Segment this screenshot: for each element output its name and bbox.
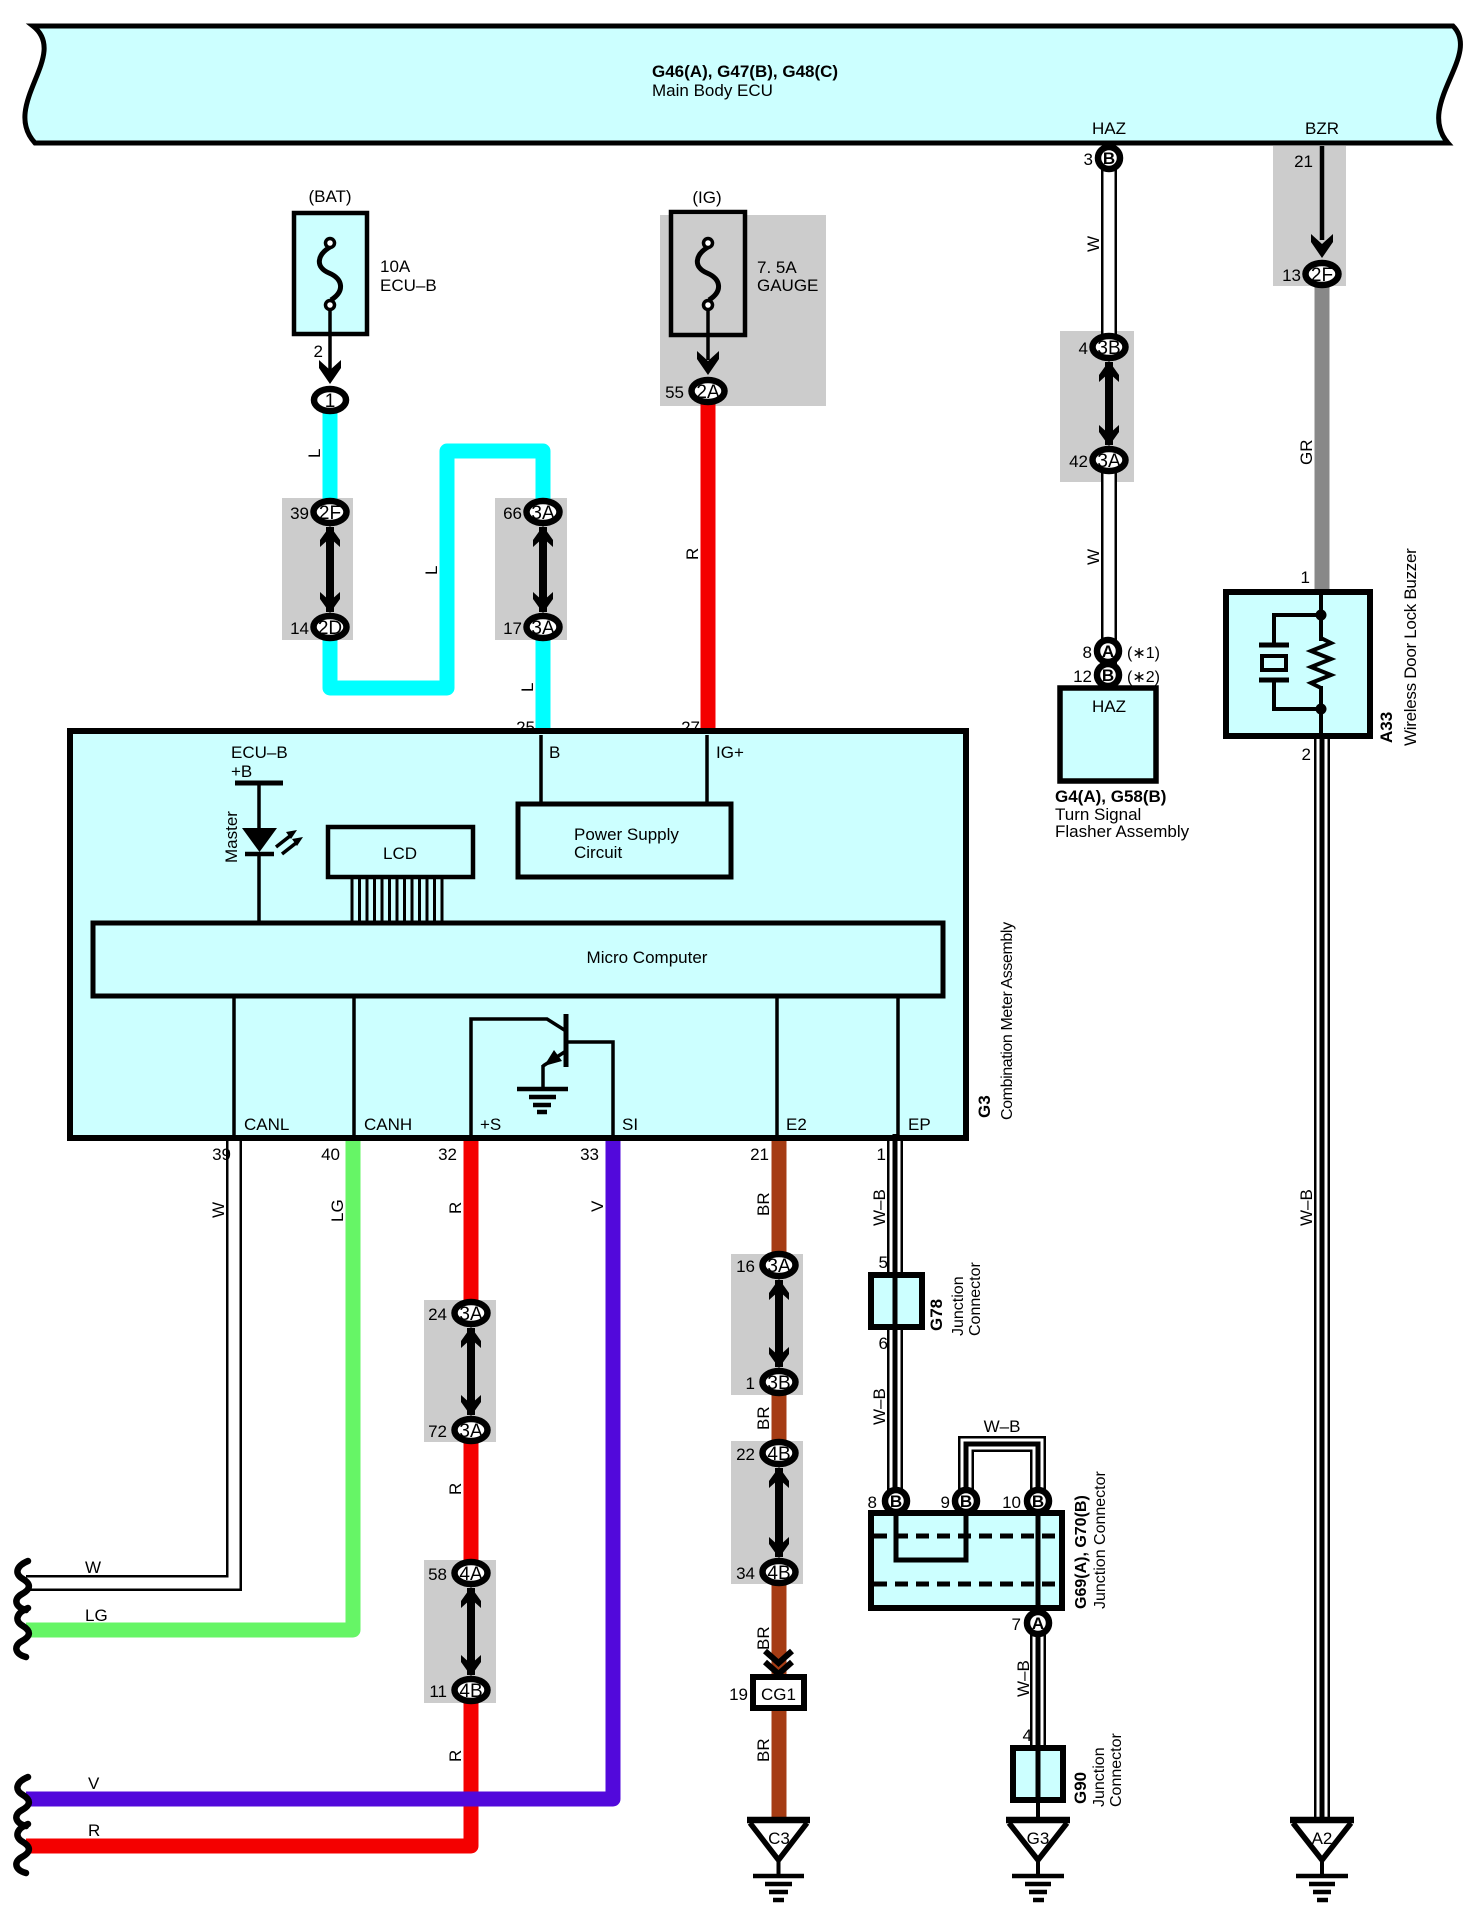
connector 58 4A <box>455 1562 488 1584</box>
wire W white from HAZ B to flasher <box>1101 165 1117 351</box>
resistor R buzzer <box>1311 638 1331 688</box>
svg-text:39: 39 <box>212 1145 231 1164</box>
svg-text:CG1: CG1 <box>761 1685 796 1704</box>
svg-text:16: 16 <box>736 1257 755 1276</box>
svg-text:34: 34 <box>736 1564 755 1583</box>
svg-text:EP: EP <box>908 1115 931 1134</box>
connector 14 2D <box>314 616 347 638</box>
svg-text:R: R <box>683 548 702 560</box>
connector CG1 <box>753 1677 804 1708</box>
wire BR brown from E2 to ground C3 <box>772 1134 787 1269</box>
svg-text:17: 17 <box>503 619 522 638</box>
svg-text:39: 39 <box>290 504 309 523</box>
svg-text:ECU–B: ECU–B <box>231 743 288 762</box>
svg-text:19: 19 <box>729 1685 748 1704</box>
Turn Signal Flasher Assembly box <box>1060 688 1156 781</box>
svg-text:Wireless Door Lock Buzzer: Wireless Door Lock Buzzer <box>1401 548 1420 746</box>
svg-text:A: A <box>1102 642 1114 661</box>
svg-text:W–B: W–B <box>870 1388 889 1425</box>
svg-text:L: L <box>518 683 537 692</box>
svg-text:Combination Meter Assembly: Combination Meter Assembly <box>999 922 1016 1120</box>
wire R red mid run <box>464 1426 479 1577</box>
power rail bar <box>235 781 283 786</box>
arrow pair 16-1 <box>775 1280 783 1367</box>
arrow pair 3B-3A <box>1105 362 1113 445</box>
backdrop connectors 4 3B/42 3A <box>1060 331 1134 482</box>
wire from G90 to ground G3 <box>1036 1798 1040 1820</box>
connector 3 B <box>1098 147 1120 169</box>
svg-text:BR: BR <box>754 1192 773 1216</box>
wire R red lower run <box>26 1686 471 1846</box>
svg-text:3B: 3B <box>1097 338 1120 359</box>
svg-text:R: R <box>446 1483 465 1495</box>
svg-text:21: 21 <box>750 1145 769 1164</box>
wire W-B from connector A to G90 <box>1030 1630 1046 1752</box>
svg-text:Main Body ECU: Main Body ECU <box>652 81 773 100</box>
svg-text:ECU–B: ECU–B <box>380 276 437 295</box>
svg-text:BR: BR <box>754 1738 773 1762</box>
connector 8 A <box>1097 640 1119 662</box>
svg-text:HAZ: HAZ <box>1092 119 1126 138</box>
svg-text:HAZ: HAZ <box>1092 697 1126 716</box>
svg-text:4: 4 <box>1079 339 1088 358</box>
transistor Q1 base bar <box>564 1014 569 1067</box>
transistor emitter with arrow <box>543 1051 566 1066</box>
svg-text:L: L <box>305 449 324 458</box>
svg-text:A: A <box>1032 1614 1044 1633</box>
svg-text:W: W <box>1084 236 1103 252</box>
wire BR lower run <box>772 1568 787 1820</box>
svg-text:Flasher Assembly: Flasher Assembly <box>1055 822 1190 841</box>
svg-text:SI: SI <box>622 1115 638 1134</box>
wire LED to micro computer <box>257 854 261 924</box>
ground inside meter <box>517 1087 568 1092</box>
arrow pair 24-72 <box>467 1328 475 1415</box>
Wireless Door Lock Buzzer A33 box <box>1226 592 1370 736</box>
svg-text:V: V <box>88 1774 100 1793</box>
svg-text:R: R <box>446 1750 465 1762</box>
G69 internal bus pins 8-9 <box>896 1516 966 1560</box>
buzzer internal wire <box>1319 595 1323 641</box>
wire R red from fuse GAUGE to meter IG+ <box>701 385 716 734</box>
svg-text:58: 58 <box>428 1565 447 1584</box>
W-B stripe A to G90 <box>1036 1630 1041 1800</box>
svg-text:10A: 10A <box>380 257 411 276</box>
svg-text:W–B: W–B <box>1297 1189 1316 1226</box>
svg-text:Circuit: Circuit <box>574 843 622 862</box>
svg-text:C3: C3 <box>768 1829 790 1848</box>
fuse ECU-B element <box>319 247 340 300</box>
wire BR mid run <box>772 1378 787 1457</box>
svg-text:LCD: LCD <box>383 844 417 863</box>
svg-text:27: 27 <box>681 718 700 737</box>
svg-text:W–B: W–B <box>1014 1660 1033 1697</box>
connector 16 3A <box>763 1254 796 1276</box>
svg-text:1: 1 <box>877 1145 886 1164</box>
backdrop connectors 24 3A/72 3A <box>424 1300 496 1442</box>
svg-text:B: B <box>890 1492 902 1511</box>
svg-text:4B: 4B <box>459 1681 482 1702</box>
break brace W <box>16 1561 29 1610</box>
pin IG+ line <box>705 735 709 805</box>
svg-text:GR: GR <box>1297 440 1316 466</box>
svg-text:BR: BR <box>754 1626 773 1650</box>
transistor collector to SI <box>566 1042 613 1135</box>
svg-text:G3: G3 <box>1027 1829 1050 1848</box>
svg-text:Power Supply: Power Supply <box>574 825 679 844</box>
svg-text:3A: 3A <box>459 1421 483 1442</box>
svg-text:10: 10 <box>1002 1493 1021 1512</box>
svg-text:R: R <box>446 1202 465 1214</box>
ground C3 <box>747 1817 810 1824</box>
connector 13 2F <box>1306 263 1339 285</box>
svg-text:11: 11 <box>429 1682 447 1701</box>
ground A2 <box>1290 1817 1354 1824</box>
wire V violet from SI to left edge <box>26 1134 613 1799</box>
pin E2 line <box>775 996 779 1135</box>
svg-text:Master: Master <box>222 811 241 863</box>
junction dot top <box>1316 610 1327 621</box>
svg-text:V: V <box>588 1200 607 1212</box>
connector 1 <box>314 389 346 411</box>
svg-text:55: 55 <box>665 383 684 402</box>
svg-text:3B: 3B <box>767 1373 790 1394</box>
svg-text:Micro Computer: Micro Computer <box>587 948 708 967</box>
svg-text:8: 8 <box>868 1493 877 1512</box>
svg-text:7. 5A: 7. 5A <box>757 258 797 277</box>
svg-text:66: 66 <box>503 504 522 523</box>
connector 10 B G69 <box>1027 1490 1049 1512</box>
wire R red from +S to left edge <box>464 1134 479 1317</box>
W-B stripe EP wire <box>893 1134 898 1497</box>
svg-text:2F: 2F <box>319 503 341 524</box>
svg-text:W: W <box>209 1202 228 1218</box>
svg-text:L: L <box>422 566 441 575</box>
pin CANH line <box>352 996 356 1135</box>
svg-text:A33: A33 <box>1377 712 1396 743</box>
arrow fuse to connector 2A <box>706 310 710 360</box>
svg-text:B: B <box>960 1492 972 1511</box>
LED light arrow 2 <box>282 843 296 854</box>
svg-text:Junction: Junction <box>950 1276 967 1336</box>
svg-text:72: 72 <box>428 1422 447 1441</box>
svg-text:1: 1 <box>325 391 336 412</box>
LCD block <box>328 827 473 877</box>
junction connector G69/G70 box <box>871 1513 1062 1608</box>
wire LG light green from CANH to left edge <box>26 1134 353 1630</box>
svg-text:2F: 2F <box>1311 265 1333 286</box>
connector 66 3A <box>527 501 560 523</box>
fuse GAUGE 7.5A box <box>671 212 745 335</box>
Micro Computer block <box>93 923 943 996</box>
svg-text:4A: 4A <box>459 1564 483 1585</box>
backdrop connectors 2F/2D <box>282 498 353 640</box>
svg-text:3: 3 <box>1084 150 1093 169</box>
svg-text:33: 33 <box>580 1145 599 1164</box>
svg-text:40: 40 <box>321 1145 340 1164</box>
connector 7 A G69 <box>1027 1612 1049 1634</box>
svg-text:8: 8 <box>1083 643 1092 662</box>
svg-text:3A: 3A <box>767 1256 791 1277</box>
wire L cyan from connector 1 to meter B <box>323 395 338 516</box>
svg-text:LG: LG <box>328 1199 347 1222</box>
svg-text:1: 1 <box>746 1374 755 1393</box>
svg-text:2: 2 <box>1302 745 1311 764</box>
connector 39 2F <box>314 501 347 523</box>
wire L cyan middle run <box>330 451 543 688</box>
connector 12 B <box>1097 664 1119 686</box>
backdrop connectors 58 4A/11 4B <box>424 1560 496 1703</box>
fuse ECU-B 10A box <box>294 213 367 334</box>
svg-text:E2: E2 <box>786 1115 807 1134</box>
piezo element rect <box>1262 656 1286 670</box>
svg-text:6: 6 <box>879 1334 888 1353</box>
connector 17 3A <box>527 616 560 638</box>
connector 1 3B <box>763 1371 796 1393</box>
fuse GAUGE element <box>697 247 718 300</box>
svg-text:21: 21 <box>1294 152 1313 171</box>
svg-text:B: B <box>549 743 560 762</box>
LED light arrow 1 <box>276 836 290 847</box>
pin EP line <box>896 996 900 1135</box>
svg-text:GAUGE: GAUGE <box>757 276 818 295</box>
capacitor plate bottom <box>1259 678 1289 683</box>
emitter to ground <box>541 1065 545 1088</box>
svg-text:W–B: W–B <box>984 1417 1021 1436</box>
svg-text:32: 32 <box>438 1145 457 1164</box>
connector 4 3B <box>1093 336 1126 358</box>
svg-text:+B: +B <box>231 762 252 781</box>
Combination Meter Assembly box G3 <box>70 731 966 1138</box>
svg-text:CANH: CANH <box>364 1115 412 1134</box>
capacitor plate top <box>1259 643 1289 648</box>
wire W-B from buzzer to ground A2 <box>1314 734 1330 1820</box>
arrow pair 2F-2D <box>326 527 334 612</box>
svg-text:W: W <box>85 1558 101 1577</box>
svg-text:Connector: Connector <box>967 1262 984 1336</box>
svg-text:5: 5 <box>879 1253 888 1272</box>
wire W-B from EP to junction connector <box>887 1134 903 1500</box>
svg-text:3A: 3A <box>1097 451 1121 472</box>
backdrop connectors 16 3A/1 3B <box>731 1254 803 1395</box>
connector 8 B G69 <box>885 1490 907 1512</box>
svg-text:Junction Connector: Junction Connector <box>1092 1470 1109 1609</box>
svg-text:22: 22 <box>736 1445 755 1464</box>
backdrop connectors 66 3A/17 3A <box>495 498 567 640</box>
connector 42 3A <box>1093 449 1126 471</box>
arrow pair 66-17 <box>539 527 547 612</box>
svg-text:3A: 3A <box>459 1304 483 1325</box>
svg-text:7: 7 <box>1012 1615 1021 1634</box>
svg-text:2A: 2A <box>696 382 720 403</box>
svg-text:4: 4 <box>1023 1726 1032 1745</box>
svg-text:Junction: Junction <box>1091 1747 1108 1807</box>
svg-text:BZR: BZR <box>1305 119 1339 138</box>
arrow BZR to connector 2F <box>1320 146 1325 240</box>
svg-text:B: B <box>1032 1492 1044 1511</box>
break brace R <box>16 1824 29 1873</box>
svg-text:Connector: Connector <box>1108 1733 1125 1807</box>
G69 internal bus pin 10 <box>1036 1513 1041 1608</box>
svg-text:G90: G90 <box>1071 1772 1090 1804</box>
wire W-B jumper pin9 to pin10 <box>966 1444 1038 1498</box>
svg-text:2: 2 <box>314 342 323 361</box>
svg-text:W–B: W–B <box>870 1189 889 1226</box>
W-B stripe jumper <box>966 1444 1038 1496</box>
svg-text:9: 9 <box>941 1493 950 1512</box>
arrow fuse to connector 1 <box>328 310 332 372</box>
svg-text:13: 13 <box>1282 266 1301 285</box>
svg-text:+S: +S <box>480 1115 501 1134</box>
svg-text:(BAT): (BAT) <box>308 187 351 206</box>
svg-text:42: 42 <box>1069 452 1088 471</box>
svg-text:G78: G78 <box>927 1299 946 1331</box>
svg-text:(∗2): (∗2) <box>1127 669 1160 686</box>
pin B line <box>539 735 543 805</box>
Power Supply Circuit block <box>518 804 731 877</box>
wire +S to transistor base <box>471 1019 566 1135</box>
connector 24 3A <box>455 1302 488 1324</box>
backdrop connector 13 2F <box>1273 146 1346 286</box>
svg-text:3A: 3A <box>531 503 555 524</box>
svg-text:4B: 4B <box>767 1444 790 1465</box>
svg-text:G46(A), G47(B), G48(C): G46(A), G47(B), G48(C) <box>652 62 838 81</box>
svg-text:G4(A), G58(B): G4(A), G58(B) <box>1055 787 1166 806</box>
W-B stripe buzzer wire <box>1320 734 1325 1818</box>
svg-text:3A: 3A <box>531 618 555 639</box>
svg-text:4B: 4B <box>767 1563 790 1584</box>
backdrop fuse GAUGE <box>660 215 826 406</box>
connector 11 4B <box>455 1679 488 1701</box>
connector 72 3A <box>455 1419 488 1441</box>
break brace V <box>16 1777 29 1826</box>
svg-text:(∗1): (∗1) <box>1127 645 1160 662</box>
wire rail to LED <box>257 783 261 828</box>
junction connector G78 <box>871 1275 922 1327</box>
svg-text:(IG): (IG) <box>692 188 721 207</box>
wire L cyan to meter <box>536 623 551 734</box>
LED Master indicator <box>242 828 277 852</box>
svg-text:12: 12 <box>1073 667 1092 686</box>
backdrop connectors 22 4B/34 4B <box>731 1441 803 1584</box>
svg-text:A2: A2 <box>1312 1829 1333 1848</box>
arrow pair 22-34 <box>775 1468 783 1557</box>
break brace LG <box>16 1608 29 1657</box>
wire GR grey from 2F to buzzer <box>1315 284 1330 594</box>
svg-text:B: B <box>1103 149 1115 168</box>
svg-text:R: R <box>88 1821 100 1840</box>
junction dot bottom <box>1316 704 1327 715</box>
svg-text:B: B <box>1102 666 1114 685</box>
svg-text:BR: BR <box>754 1406 773 1430</box>
ECU Main Body band <box>25 26 1461 143</box>
arrow pair 58-11 <box>467 1588 475 1675</box>
connector 22 4B <box>763 1442 796 1464</box>
svg-text:G69(A), G70(B): G69(A), G70(B) <box>1073 1495 1090 1609</box>
chevrons to CG1 <box>765 1651 792 1663</box>
ground G3 <box>1006 1817 1070 1824</box>
connector 9 B G69 <box>955 1490 977 1512</box>
LCD pin hatch <box>352 877 442 922</box>
connector 34 4B <box>763 1561 796 1583</box>
svg-text:G3: G3 <box>975 1095 994 1118</box>
wire W haz lower run <box>1101 456 1117 688</box>
connector 2A <box>692 380 725 402</box>
svg-text:14: 14 <box>290 619 309 638</box>
svg-text:1: 1 <box>1301 568 1310 587</box>
svg-text:CANL: CANL <box>244 1115 289 1134</box>
svg-text:IG+: IG+ <box>716 743 744 762</box>
wire W white from CANL to left edge <box>26 1134 234 1583</box>
junction connector G90 <box>1013 1748 1063 1800</box>
svg-text:2D: 2D <box>318 618 342 639</box>
G69 dashed row 2 <box>874 1582 1059 1587</box>
pin CANL line <box>232 996 236 1135</box>
svg-text:LG: LG <box>85 1606 108 1625</box>
capacitor piezo branch wire <box>1274 615 1321 645</box>
svg-text:W: W <box>1084 549 1103 565</box>
svg-text:25: 25 <box>516 718 535 737</box>
G69 dashed row 1 <box>874 1534 1059 1539</box>
svg-text:24: 24 <box>428 1305 447 1324</box>
